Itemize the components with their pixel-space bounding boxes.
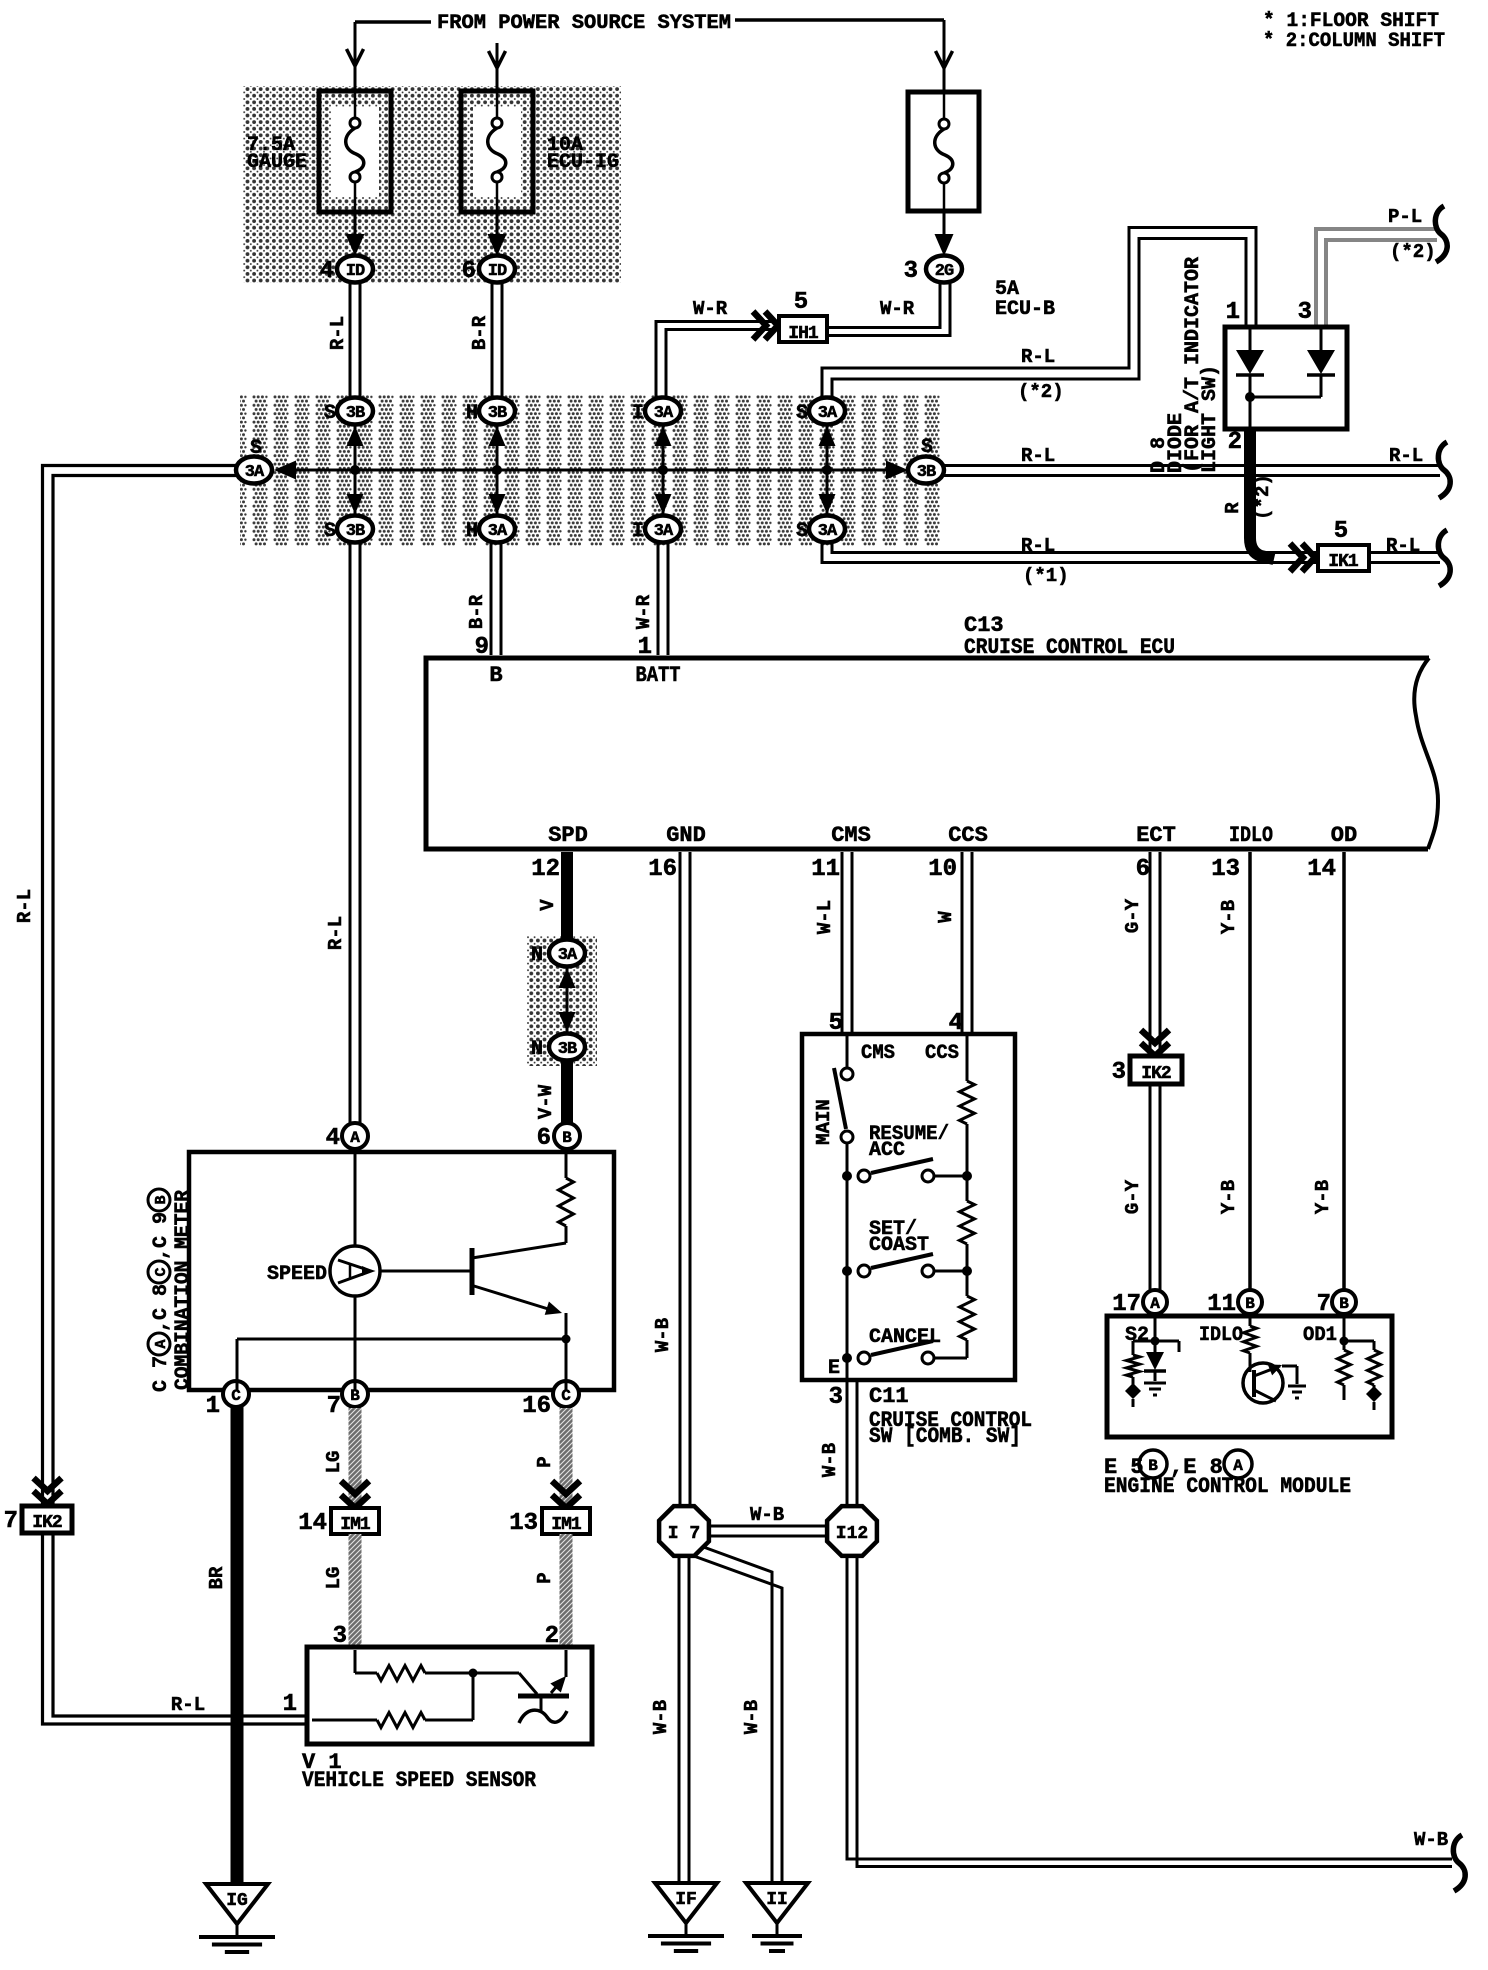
svg-text:16: 16 [522, 1393, 551, 1420]
svg-text:R: R [1222, 502, 1244, 514]
svg-text:IG: IG [226, 1891, 248, 1911]
svg-text:3: 3 [1112, 1059, 1126, 1086]
svg-text:4: 4 [320, 258, 334, 285]
svg-text:S: S [921, 436, 933, 459]
svg-text:G-Y: G-Y [1122, 898, 1144, 933]
svg-text:Y-B: Y-B [1312, 1180, 1334, 1214]
svg-text:B: B [1339, 1295, 1349, 1313]
svg-text:1: 1 [1226, 299, 1240, 326]
svg-text:4: 4 [326, 1125, 340, 1152]
svg-text:VEHICLE SPEED SENSOR: VEHICLE SPEED SENSOR [302, 1768, 537, 1793]
svg-text:ECT: ECT [1136, 823, 1176, 848]
svg-text:2: 2 [1228, 429, 1242, 456]
svg-text:A: A [1233, 1457, 1243, 1475]
svg-text:11: 11 [811, 856, 840, 883]
svg-text:V-W: V-W [535, 1084, 557, 1119]
svg-text:BATT: BATT [636, 663, 681, 688]
svg-text:W-R: W-R [693, 298, 728, 320]
svg-text:CCS: CCS [925, 1042, 959, 1065]
svg-text:G-Y: G-Y [1122, 1179, 1144, 1214]
svg-text:11: 11 [1207, 1291, 1236, 1318]
svg-text:2G: 2G [935, 262, 954, 281]
svg-text:3A: 3A [654, 404, 674, 423]
svg-text:P: P [534, 1572, 556, 1583]
svg-text:OD: OD [1331, 823, 1357, 848]
svg-text:MAIN: MAIN [813, 1099, 835, 1145]
svg-text:IH1: IH1 [788, 324, 819, 344]
svg-text:IM1: IM1 [551, 1515, 582, 1535]
svg-text:II: II [766, 1890, 788, 1910]
svg-text:,C 9: ,C 9 [150, 1212, 173, 1260]
svg-text:3B: 3B [917, 463, 936, 482]
svg-text:16: 16 [648, 856, 677, 883]
svg-text:COAST: COAST [869, 1234, 929, 1257]
svg-text:ENGINE CONTROL MODULE: ENGINE CONTROL MODULE [1104, 1474, 1351, 1499]
svg-text:BR: BR [206, 1566, 228, 1589]
svg-text:3B: 3B [488, 404, 507, 423]
svg-text:R-L: R-L [1386, 535, 1420, 557]
svg-text:14: 14 [298, 1510, 327, 1537]
svg-text:W-R: W-R [880, 298, 915, 320]
svg-text:LG: LG [323, 1567, 345, 1590]
svg-text:3A: 3A [818, 522, 838, 541]
svg-text:CMS: CMS [861, 1042, 895, 1065]
svg-text:N: N [531, 1038, 543, 1061]
svg-text:C: C [153, 1267, 170, 1276]
svg-text:3A: 3A [654, 522, 674, 541]
svg-text:6: 6 [537, 1125, 551, 1152]
svg-text:13: 13 [1211, 856, 1240, 883]
svg-text:R-L: R-L [1021, 535, 1055, 557]
svg-text:IDLO: IDLO [1229, 823, 1273, 848]
svg-text:10: 10 [928, 856, 957, 883]
svg-text:3B: 3B [346, 522, 365, 541]
svg-text:P: P [534, 1456, 556, 1467]
svg-text:ID: ID [488, 262, 507, 281]
svg-text:3: 3 [904, 258, 918, 285]
svg-text:W: W [935, 911, 957, 923]
svg-text:R-L: R-L [1021, 346, 1055, 368]
svg-text:IM1: IM1 [340, 1515, 371, 1535]
svg-text:3: 3 [829, 1384, 843, 1411]
svg-text:W-B: W-B [650, 1700, 672, 1734]
svg-text:B-R: B-R [466, 594, 488, 629]
svg-text:R-L: R-L [325, 916, 347, 950]
svg-text:R-L: R-L [327, 316, 349, 350]
svg-text:1: 1 [283, 1691, 297, 1718]
svg-text:LIGHT SW): LIGHT SW) [1199, 365, 1222, 473]
svg-text:ECU-B: ECU-B [995, 298, 1055, 321]
svg-text:S: S [324, 402, 336, 425]
svg-text:ECU-IG: ECU-IG [547, 151, 619, 174]
svg-text:IF: IF [675, 1890, 697, 1910]
svg-text:13: 13 [509, 1510, 538, 1537]
svg-text:(*2): (*2) [1390, 241, 1436, 263]
svg-text:R-L: R-L [1021, 445, 1055, 467]
svg-text:3A: 3A [558, 946, 578, 965]
svg-text:R-L: R-L [171, 1694, 205, 1716]
svg-text:IK2: IK2 [1141, 1064, 1171, 1084]
svg-text:B: B [489, 663, 502, 688]
svg-text:IK1: IK1 [1328, 552, 1359, 572]
svg-text:5: 5 [794, 289, 808, 316]
svg-text:C11: C11 [869, 1384, 909, 1409]
svg-text:SPD: SPD [548, 823, 588, 848]
svg-text:7: 7 [327, 1393, 341, 1420]
svg-text:6: 6 [462, 258, 476, 285]
svg-text:I: I [632, 520, 644, 543]
svg-text:B: B [1148, 1457, 1158, 1475]
svg-text:S: S [796, 402, 808, 425]
svg-text:7: 7 [1317, 1291, 1331, 1318]
svg-text:LG: LG [323, 1451, 345, 1474]
svg-text:S: S [796, 520, 808, 543]
svg-text:1: 1 [206, 1393, 220, 1420]
svg-text:H: H [466, 402, 478, 425]
svg-text:CMS: CMS [831, 823, 871, 848]
svg-text:OD1: OD1 [1303, 1324, 1337, 1347]
svg-text:CANCEL: CANCEL [869, 1326, 941, 1349]
svg-text:W-R: W-R [633, 594, 655, 629]
svg-text:W-B: W-B [1414, 1829, 1448, 1851]
svg-text:I: I [632, 402, 644, 425]
svg-text:H: H [466, 520, 478, 543]
svg-text:B-R: B-R [469, 315, 491, 350]
svg-text:A: A [350, 1129, 360, 1147]
svg-text:W-B: W-B [819, 1443, 841, 1477]
svg-text:W-B: W-B [652, 1318, 674, 1352]
svg-text:3B: 3B [558, 1040, 577, 1059]
svg-text:S: S [324, 520, 336, 543]
svg-text:3B: 3B [346, 404, 365, 423]
svg-text:SPEED: SPEED [267, 1263, 327, 1286]
svg-text:S: S [250, 437, 262, 460]
svg-text:FROM POWER SOURCE SYSTEM: FROM POWER SOURCE SYSTEM [437, 12, 731, 35]
svg-text:7: 7 [4, 1508, 18, 1535]
svg-text:IK2: IK2 [32, 1513, 62, 1533]
svg-text:6: 6 [1136, 856, 1150, 883]
svg-text:I12: I12 [836, 1524, 868, 1544]
svg-text:SW [COMB. SW]: SW [COMB. SW] [869, 1424, 1021, 1449]
svg-text:17: 17 [1112, 1291, 1141, 1318]
svg-text:I 7: I 7 [668, 1524, 700, 1544]
svg-text:V: V [537, 899, 559, 911]
svg-text:14: 14 [1307, 856, 1336, 883]
svg-text:12: 12 [531, 856, 560, 883]
svg-text:P-L: P-L [1388, 206, 1422, 228]
svg-text:Y-B: Y-B [1218, 900, 1240, 934]
svg-text:C 7: C 7 [150, 1356, 173, 1392]
svg-text:A: A [153, 1339, 170, 1348]
svg-text:B: B [153, 1195, 170, 1204]
svg-text:E: E [828, 1357, 840, 1380]
svg-text:Y-B: Y-B [1218, 1180, 1240, 1214]
svg-text:COMBINATION METER: COMBINATION METER [172, 1190, 195, 1390]
svg-text:3A: 3A [818, 404, 838, 423]
svg-text:3: 3 [1298, 299, 1312, 326]
svg-text:* 2:COLUMN SHIFT: * 2:COLUMN SHIFT [1263, 30, 1445, 53]
svg-text:IDLO: IDLO [1199, 1324, 1243, 1347]
svg-text:A: A [1150, 1295, 1160, 1313]
svg-text:(*1): (*1) [1023, 565, 1069, 587]
svg-text:N: N [531, 944, 543, 967]
svg-text:,C 8: ,C 8 [150, 1284, 173, 1332]
svg-text:CCS: CCS [948, 823, 988, 848]
svg-text:3A: 3A [488, 522, 508, 541]
svg-text:W-L: W-L [814, 900, 836, 934]
svg-text:3A: 3A [245, 463, 265, 482]
svg-text:GAUGE: GAUGE [247, 151, 307, 174]
svg-text:GND: GND [666, 823, 706, 848]
svg-text:S2: S2 [1125, 1324, 1149, 1347]
svg-text:B: B [562, 1129, 572, 1147]
svg-text:W-B: W-B [741, 1700, 763, 1734]
svg-text:B: B [1245, 1295, 1255, 1313]
svg-text:(*2): (*2) [1018, 381, 1064, 403]
svg-text:5: 5 [1334, 518, 1348, 545]
svg-text:ACC: ACC [869, 1139, 905, 1162]
svg-text:R-L: R-L [1389, 445, 1423, 467]
svg-text:W-B: W-B [750, 1504, 784, 1526]
svg-text:R-L: R-L [14, 889, 36, 923]
svg-text:ID: ID [346, 262, 365, 281]
svg-text:(*2): (*2) [1252, 474, 1274, 520]
